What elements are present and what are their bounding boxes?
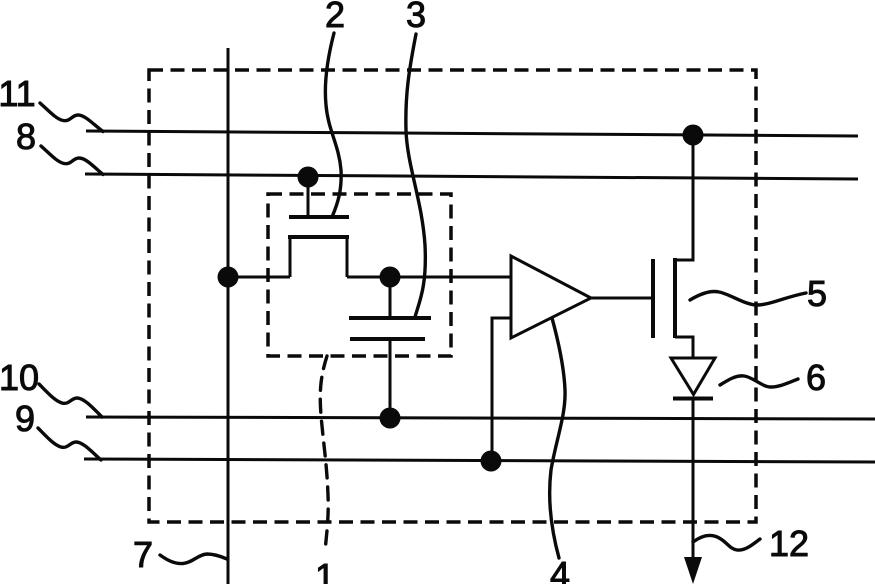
transistor T5 gate bar <box>651 259 655 338</box>
svg-text:9: 9 <box>15 398 35 439</box>
wire: signal line 10 <box>86 417 875 419</box>
sample-hold dashed boundary (inner box 1) <box>268 194 451 356</box>
wire: line7 node to T2 source <box>228 276 290 279</box>
wire: data line 7 (vertical) <box>227 48 230 584</box>
transistor T2 gate bar <box>289 215 349 219</box>
transistor T5 channel bar <box>673 258 677 338</box>
wire: amp output to T5 gate <box>591 297 653 300</box>
op-amp buffer 4 (triangle) <box>511 256 591 338</box>
wire: signal line 9 <box>84 459 875 462</box>
wire: diode to output arrow 12 <box>692 398 695 562</box>
transistor T2 gate stub <box>307 181 310 215</box>
wire: amp second input from line 9 <box>492 318 511 461</box>
wire: T5 drain to line 11 <box>675 135 693 260</box>
svg-text:10: 10 <box>0 357 39 398</box>
svg-text:8: 8 <box>16 116 36 157</box>
svg-text:5: 5 <box>807 273 827 314</box>
leader for label 9 <box>38 428 101 460</box>
leader for label 6 <box>720 376 798 387</box>
svg-text:7: 7 <box>133 534 153 575</box>
node A: T2 drain / capacitor top <box>380 267 401 288</box>
capacitor C3 top stub <box>389 277 392 318</box>
wire: T2 drain to node A to amp input <box>347 276 511 279</box>
node: gate of T2 on line 8 <box>298 167 319 188</box>
node: capacitor bottom on line 10 <box>380 408 401 429</box>
leader for label 3 <box>406 34 426 317</box>
transistor T2 channel <box>288 235 349 239</box>
svg-text:2: 2 <box>325 0 345 35</box>
svg-text:11: 11 <box>0 73 36 114</box>
diode D6 (triangle) <box>671 358 715 395</box>
capacitor C3 bottom plate <box>350 337 425 341</box>
arrow head of output 12 <box>684 557 702 584</box>
leader for label 10 <box>39 384 102 417</box>
wire: scan line 11 <box>86 131 858 136</box>
pixel cell dashed boundary (outer box) <box>149 70 756 522</box>
leader for label 12 <box>693 535 760 550</box>
svg-text:12: 12 <box>769 523 809 564</box>
wire: T5 source to diode <box>675 337 693 359</box>
leader for label 2 <box>325 33 341 217</box>
svg-text:3: 3 <box>406 0 426 35</box>
leader for label 5 <box>690 291 806 305</box>
node: amp reference input on line 9 <box>481 451 502 472</box>
wire: scan line 8 <box>85 174 858 179</box>
transistor T2 drain leg <box>346 236 349 277</box>
leader for label 8 <box>41 146 103 175</box>
capacitor C3 bottom stub to line 10 <box>389 339 392 418</box>
capacitor C3 top plate <box>349 316 431 320</box>
leader for label 7 <box>160 554 227 564</box>
diode D6 cathode bar <box>673 397 713 401</box>
svg-text:6: 6 <box>806 357 826 398</box>
svg-text:1: 1 <box>315 556 335 584</box>
node: T5 drain on line 11 <box>683 125 704 146</box>
leader for label 4 <box>550 318 565 558</box>
leader for label 11 <box>40 103 103 132</box>
dashed leader for label 1 <box>320 356 328 552</box>
transistor T2 source leg <box>289 236 292 277</box>
node: source of T2 on line 7 <box>218 267 239 288</box>
